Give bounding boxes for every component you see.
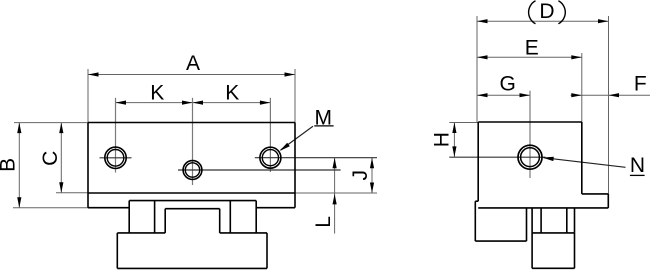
svg-text:M: M (314, 106, 332, 129)
svg-text:N: N (630, 154, 645, 177)
svg-text:B: B (0, 158, 19, 172)
svg-text:K: K (225, 82, 239, 105)
svg-text:D: D (539, 0, 554, 23)
svg-text:G: G (500, 72, 516, 95)
svg-text:C: C (39, 151, 62, 166)
svg-text:J: J (349, 170, 372, 181)
svg-text:E: E (525, 36, 539, 59)
svg-text:L: L (312, 216, 335, 228)
svg-text:A: A (186, 52, 200, 75)
svg-text:K: K (150, 82, 164, 105)
svg-text:H: H (430, 132, 453, 147)
svg-text:F: F (634, 73, 647, 96)
